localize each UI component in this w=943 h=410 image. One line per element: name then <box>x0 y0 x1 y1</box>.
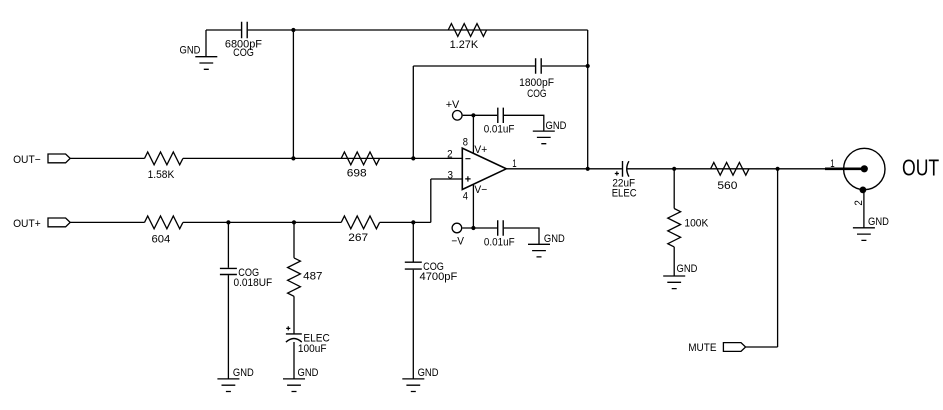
svg-text:100uF: 100uF <box>298 343 327 355</box>
svg-text:4700pF: 4700pF <box>420 271 458 283</box>
svg-text:GND: GND <box>677 263 698 275</box>
svg-text:1: 1 <box>512 158 516 170</box>
svg-text:267: 267 <box>348 232 368 244</box>
svg-text:8: 8 <box>463 137 468 149</box>
svg-text:1.58K: 1.58K <box>148 169 175 181</box>
svg-text:GND: GND <box>868 216 889 228</box>
svg-text:GND: GND <box>546 120 567 132</box>
svg-text:0.01uF: 0.01uF <box>484 124 515 136</box>
svg-text:ELEC: ELEC <box>612 188 637 200</box>
svg-text:MUTE: MUTE <box>688 342 716 354</box>
svg-text:604: 604 <box>152 233 171 245</box>
svg-text:GND: GND <box>544 233 565 245</box>
svg-text:1: 1 <box>830 158 834 170</box>
svg-text:2: 2 <box>853 200 865 206</box>
svg-text:OUT+: OUT+ <box>13 218 41 230</box>
svg-text:OUT−: OUT− <box>13 154 41 166</box>
svg-text:V−: V− <box>474 184 487 196</box>
svg-text:COG: COG <box>527 88 547 100</box>
svg-text:0.01uF: 0.01uF <box>484 237 515 249</box>
svg-text:4: 4 <box>463 190 468 202</box>
svg-text:698: 698 <box>347 167 367 179</box>
svg-text:+V: +V <box>446 99 460 111</box>
svg-text:OUT: OUT <box>902 155 939 181</box>
svg-text:COG: COG <box>233 47 254 59</box>
svg-text:GND: GND <box>418 367 439 379</box>
svg-text:487: 487 <box>303 271 322 283</box>
svg-text:GND: GND <box>233 367 254 379</box>
svg-text:GND: GND <box>298 367 319 379</box>
svg-text:3: 3 <box>448 170 454 182</box>
svg-text:100K: 100K <box>684 217 709 229</box>
svg-text:0.018UF: 0.018UF <box>234 277 273 289</box>
svg-text:1.27K: 1.27K <box>450 39 479 51</box>
svg-text:560: 560 <box>717 180 737 192</box>
svg-text:GND: GND <box>180 44 201 56</box>
svg-text:V+: V+ <box>474 144 487 156</box>
svg-text:−V: −V <box>451 236 464 248</box>
svg-text:2: 2 <box>447 149 453 161</box>
